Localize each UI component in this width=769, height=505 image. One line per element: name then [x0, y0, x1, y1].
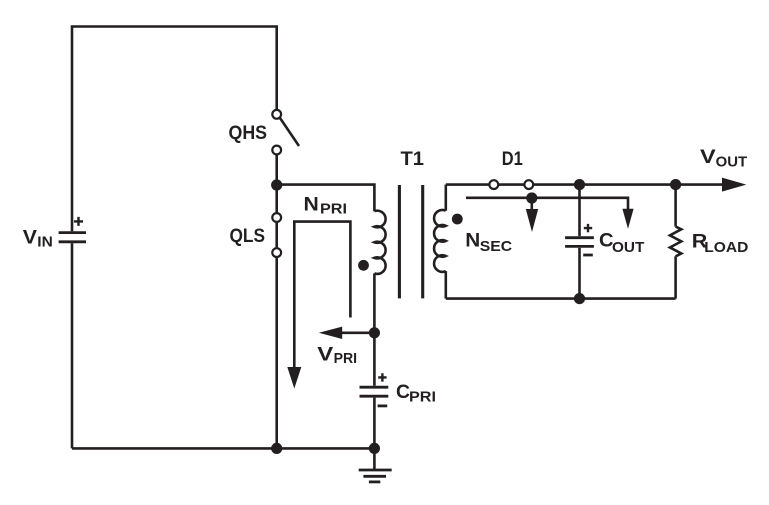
svg-text:PRI: PRI: [320, 201, 347, 218]
svg-text:T1: T1: [401, 148, 425, 170]
svg-text:QHS: QHS: [229, 122, 268, 144]
svg-text:V: V: [23, 227, 37, 249]
svg-text:OUT: OUT: [612, 239, 644, 256]
svg-text:N: N: [304, 194, 319, 216]
svg-text:V: V: [317, 344, 333, 366]
svg-text:N: N: [465, 230, 480, 252]
svg-text:V: V: [700, 146, 716, 168]
svg-text:D1: D1: [502, 148, 523, 170]
svg-text:IN: IN: [37, 234, 53, 251]
svg-text:PRI: PRI: [409, 389, 436, 406]
svg-text:C: C: [396, 381, 410, 403]
svg-text:QLS: QLS: [230, 225, 266, 247]
svg-text:PRI: PRI: [334, 350, 358, 367]
svg-text:SEC: SEC: [480, 238, 512, 255]
svg-text:LOAD: LOAD: [704, 239, 748, 256]
svg-text:OUT: OUT: [716, 154, 748, 171]
